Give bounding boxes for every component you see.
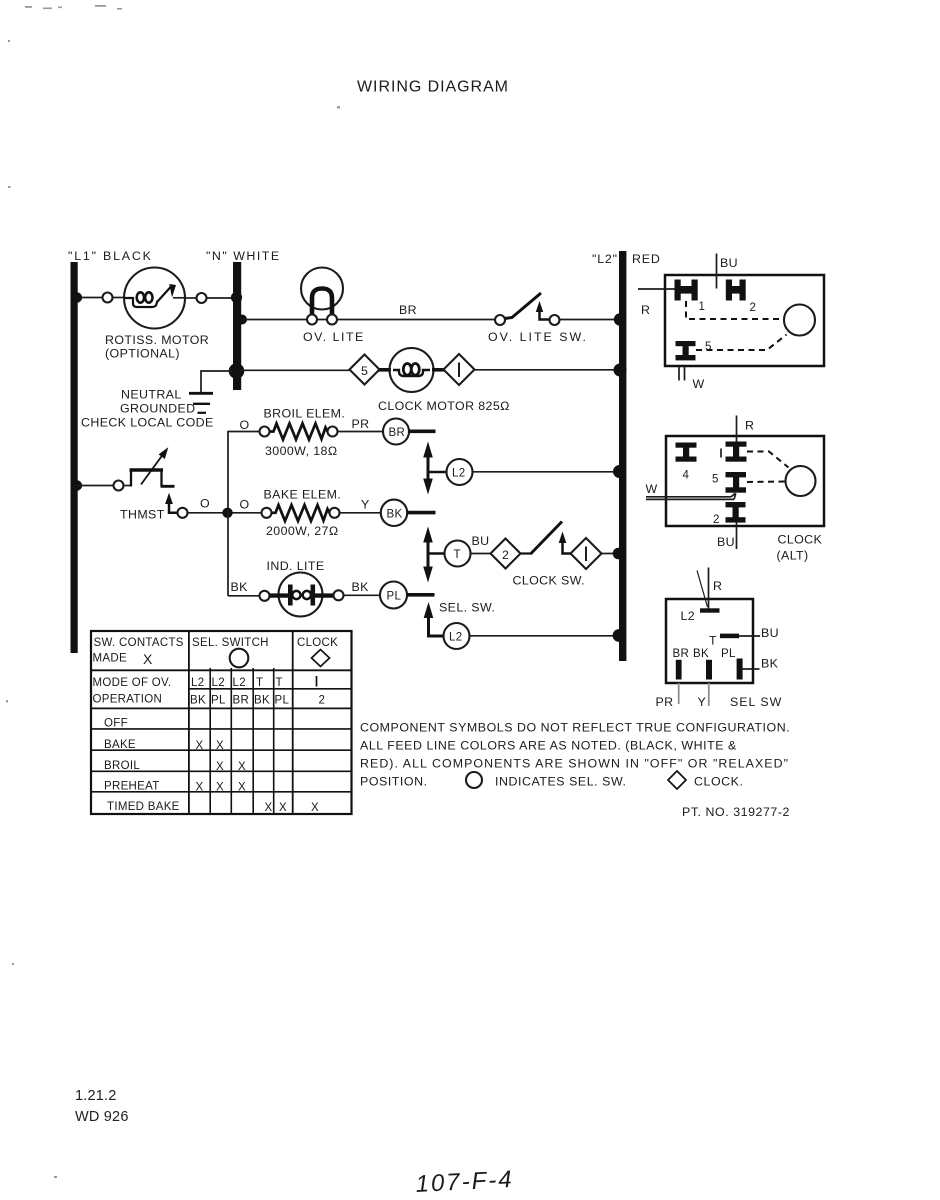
table header sel switch [192, 637, 269, 667]
wire N to diamond 5 [240, 369, 350, 371]
terminal 5 box1 [676, 341, 696, 360]
sel sw connector box 3 [666, 599, 753, 683]
svg-text:L2: L2 [452, 468, 465, 480]
svg-text:BK: BK [190, 695, 206, 707]
terminal 1 box2 [726, 442, 747, 462]
terminal broil right [328, 427, 338, 437]
svg-text:BK: BK [231, 580, 249, 594]
wire BU from T box3 [739, 635, 760, 637]
dashed link terminal1 to cam box2 [747, 452, 789, 468]
bus L1 bar [71, 262, 78, 653]
wire W into box2 [646, 493, 736, 499]
contact arrow BK/T (double) [423, 527, 444, 583]
node PL circle [380, 582, 407, 609]
node T circle [445, 541, 471, 567]
junction bake branch [222, 508, 232, 518]
terminal 5 box2 [726, 472, 747, 493]
rotiss motor circle [124, 268, 185, 329]
node BK circle [381, 500, 407, 526]
svg-text:4: 4 [683, 470, 690, 482]
bus L2 bar [619, 251, 626, 661]
svg-text:2: 2 [750, 302, 757, 314]
node BR circle [383, 419, 409, 445]
svg-text:THMST: THMST [120, 508, 165, 522]
bus N bar [233, 262, 241, 390]
svg-text:SW. CONTACTS: SW. CONTACTS [94, 637, 184, 649]
svg-text:L2: L2 [681, 609, 696, 623]
row BROIL [104, 760, 246, 773]
svg-text:CLOCK.: CLOCK. [694, 775, 743, 789]
svg-text:2: 2 [502, 548, 509, 562]
wire diamond1 to L2 [475, 369, 620, 371]
wire terminal to motor [113, 297, 126, 299]
wire diamond5 to clock motor [378, 368, 391, 372]
diamond 1 clock sw [571, 538, 602, 569]
svg-text:OFF: OFF [104, 718, 128, 730]
svg-text:INDICATES SEL. SW.: INDICATES SEL. SW. [495, 775, 627, 789]
stub wire BK [407, 511, 436, 515]
svg-text:PREHEAT: PREHEAT [104, 781, 160, 793]
svg-text:L2: L2 [233, 677, 246, 689]
svg-text:BAKE: BAKE [104, 739, 136, 751]
wire R into box3 [697, 568, 709, 610]
pin 1 label box2 [720, 449, 722, 458]
wire motor to terminal [185, 297, 197, 299]
svg-text:BROIL: BROIL [104, 760, 140, 772]
terminal ind lite right [334, 590, 344, 600]
svg-text:CLOCK MOTOR 825Ω: CLOCK MOTOR 825Ω [378, 399, 510, 413]
table frame [91, 631, 352, 814]
svg-text:X: X [196, 740, 204, 752]
svg-text:BR: BR [233, 695, 250, 707]
svg-text:CLOCK SW.: CLOCK SW. [513, 574, 585, 588]
svg-text:Y: Y [698, 695, 707, 709]
terminal ov-lite right [327, 315, 337, 325]
terminal 2 box1 [726, 280, 746, 301]
stub below Y [708, 683, 710, 706]
svg-text:BU: BU [761, 626, 779, 640]
svg-text:X: X [238, 782, 246, 794]
table row mode of operation [93, 677, 172, 706]
terminal ov-lite left [307, 315, 317, 325]
terminal thmst left [114, 481, 124, 491]
svg-text:COMPONENT SYMBOLS DO NOT REFLE: COMPONENT SYMBOLS DO NOT REFLECT TRUE CO… [360, 721, 790, 735]
svg-text:WIRING DIAGRAM: WIRING DIAGRAM [357, 79, 509, 96]
svg-text:BROIL ELEM.: BROIL ELEM. [264, 407, 346, 421]
wire T to diamond 2 [471, 553, 492, 555]
node L2 circle lower [444, 623, 470, 649]
terminal ind lite left [260, 591, 270, 601]
svg-text:W: W [693, 377, 705, 391]
svg-text:O: O [240, 418, 250, 432]
table header clock [297, 637, 338, 667]
svg-text:ROTISS. MOTOR: ROTISS. MOTOR [105, 333, 209, 347]
svg-text:O: O [200, 497, 210, 511]
svg-text:PT. NO. 319277-2: PT. NO. 319277-2 [682, 805, 790, 819]
clock motor circle [390, 348, 434, 392]
terminal 2 box2 [726, 502, 746, 523]
svg-text:PL: PL [387, 591, 402, 603]
clock switch blade [521, 522, 563, 555]
prong SEL box3 [737, 659, 743, 680]
svg-text:BK: BK [761, 657, 779, 671]
wire BU stub box2 [736, 523, 738, 550]
svg-text:L2: L2 [191, 677, 204, 689]
svg-text:BK: BK [387, 508, 403, 520]
svg-text:5: 5 [361, 364, 368, 378]
svg-text:X: X [279, 802, 287, 814]
junction N/ov-lite wire [237, 315, 247, 325]
wire L1 to rotiss motor [77, 297, 103, 299]
svg-text:ALL FEED LINE COLORS ARE AS NO: ALL FEED LINE COLORS ARE AS NOTED. (BLAC… [360, 739, 737, 753]
svg-text:MADE: MADE [93, 653, 127, 665]
svg-text:IND. LITE: IND. LITE [267, 559, 325, 573]
terminal 1 box1 [675, 280, 698, 301]
terminal bake left [262, 508, 272, 518]
svg-text:X: X [216, 740, 224, 752]
svg-text:1.21.2: 1.21.2 [75, 1088, 117, 1104]
svg-text:BK: BK [352, 580, 370, 594]
svg-text:L2: L2 [449, 632, 462, 644]
resistor broil element [270, 424, 328, 440]
svg-text:RED: RED [632, 252, 661, 266]
svg-text:BR: BR [399, 303, 417, 317]
svg-text:GROUNDED: GROUNDED [120, 402, 195, 416]
table header sw contacts made [93, 637, 184, 667]
svg-text:PL: PL [211, 695, 226, 707]
vertical branch wire broil-to-indlite [228, 432, 261, 597]
clock connector box 1 [665, 275, 824, 366]
svg-text:1: 1 [699, 301, 706, 313]
svg-text:BU: BU [472, 534, 490, 548]
svg-text:(OPTIONAL): (OPTIONAL) [105, 347, 180, 361]
svg-text:(ALT): (ALT) [777, 549, 809, 563]
diamond 2 [491, 539, 521, 569]
row BAKE [104, 739, 224, 752]
scan specks top-left [6, 5, 340, 1178]
svg-text:X: X [238, 761, 246, 773]
thermostat THMST [124, 447, 175, 486]
svg-text:R: R [641, 303, 650, 317]
svg-text:W: W [646, 482, 658, 496]
dashed link terminal5 to cam box2 [747, 481, 785, 484]
svg-text:X: X [196, 782, 204, 794]
svg-text:2: 2 [319, 695, 326, 707]
svg-text:BU: BU [717, 535, 735, 549]
subheader row 1 [191, 676, 317, 689]
wire BU into box1 [716, 254, 718, 289]
terminal 4 box2 [676, 443, 697, 462]
wire L1 to thmst [77, 485, 114, 487]
contact arrow BR/L2 (double) [423, 442, 446, 495]
svg-text:PR: PR [352, 417, 370, 431]
svg-text:2000W, 27Ω: 2000W, 27Ω [266, 524, 339, 538]
junction N/clock-motor (big) [229, 363, 245, 379]
svg-text:OV. LITE SW.: OV. LITE SW. [488, 330, 588, 344]
terminal T box3 [720, 634, 739, 639]
svg-text:OV. LITE: OV. LITE [303, 330, 365, 344]
wire to BR node [338, 431, 384, 433]
wire W stub box1 [679, 366, 685, 381]
ground symbol [189, 393, 213, 413]
svg-text:MODE OF OV.: MODE OF OV. [93, 677, 172, 689]
wire to PL node [344, 594, 381, 596]
thmst switch contact [165, 493, 187, 518]
svg-text:X: X [216, 782, 224, 794]
ov lite switch [495, 293, 560, 325]
wire L2 lower to bus [470, 635, 620, 637]
svg-text:Y: Y [361, 498, 370, 512]
svg-text:R: R [713, 579, 722, 593]
svg-text:OPERATION: OPERATION [93, 694, 163, 706]
junction L1/rotiss [72, 292, 82, 302]
junction L2/clock-sw [613, 548, 625, 560]
svg-text:"N" WHITE: "N" WHITE [206, 249, 281, 263]
dashed link terminal5 to cam box1 [696, 335, 787, 351]
cam circle box1 [784, 305, 815, 336]
svg-text:T: T [256, 677, 263, 689]
svg-text:X: X [265, 802, 273, 814]
svg-text:"L2": "L2" [592, 252, 618, 266]
wire branch to ind lite [228, 595, 260, 597]
svg-text:2: 2 [713, 514, 720, 526]
terminal bake right [330, 508, 340, 518]
junction L2/clock-motor [614, 364, 627, 377]
ov lite lamp [301, 268, 343, 318]
wire thmst to bake junction [188, 512, 263, 514]
terminal rotiss right [197, 293, 207, 303]
svg-text:5: 5 [712, 474, 719, 486]
wire R into box1 [638, 288, 676, 290]
svg-text:R: R [745, 419, 754, 433]
ind lite lamp [270, 573, 335, 617]
wire ov-lite row [241, 319, 496, 321]
svg-text:POSITION.: POSITION. [360, 775, 428, 789]
terminal broil left [260, 427, 270, 437]
wire L2 node to L2 bus [473, 471, 620, 473]
svg-text:SEL. SW.: SEL. SW. [439, 601, 495, 615]
clock switch contact [559, 532, 571, 554]
svg-text:"L1" BLACK: "L1" BLACK [68, 249, 153, 263]
svg-text:PL: PL [721, 648, 736, 660]
wire terminal to N bus [207, 297, 235, 299]
dashed link terminal1 to cam box1 [686, 301, 783, 319]
svg-text:WD 926: WD 926 [75, 1109, 129, 1125]
junction L1/thmst [72, 480, 82, 490]
node L2 circle upper [447, 459, 473, 485]
wire to BK node [340, 512, 382, 514]
svg-text:X: X [143, 651, 153, 667]
svg-text:BR: BR [389, 427, 406, 439]
wire BK from prong box3 [743, 668, 760, 670]
row TIMED BAKE [107, 801, 319, 814]
diamond 1 [444, 354, 475, 385]
svg-text:T: T [709, 634, 717, 648]
svg-text:X: X [216, 761, 224, 773]
svg-text:SEL SW: SEL SW [730, 695, 782, 709]
stub below PR [678, 683, 680, 704]
svg-text:BK: BK [254, 695, 270, 707]
svg-text:RED). ALL COMPONENTS ARE SHOW: RED). ALL COMPONENTS ARE SHOWN IN "OFF" … [360, 757, 789, 771]
contact arrow PL/L2 (single up) [424, 602, 443, 636]
svg-text:PR: PR [656, 695, 674, 709]
legend clock diamond [668, 771, 686, 789]
svg-text:NEUTRAL: NEUTRAL [121, 388, 182, 402]
prong PR box3 [676, 660, 682, 680]
resistor bake element [272, 505, 330, 521]
svg-text:TIMED BAKE: TIMED BAKE [107, 801, 180, 813]
row PREHEAT [104, 781, 246, 794]
legend sel sw circle [466, 772, 482, 788]
wire clock motor to diamond 1 [432, 368, 445, 372]
svg-text:3000W, 18Ω: 3000W, 18Ω [265, 444, 338, 458]
junction L2/ov-lite [614, 313, 626, 325]
notes text [360, 721, 790, 789]
svg-text:5: 5 [705, 341, 712, 353]
svg-text:O: O [240, 498, 250, 512]
svg-text:PL: PL [275, 695, 290, 707]
svg-text:SEL. SWITCH: SEL. SWITCH [192, 637, 269, 649]
clock connector box 2 (alt) [666, 436, 824, 526]
cam circle box2 [786, 466, 816, 496]
svg-text:T: T [276, 677, 283, 689]
svg-text:BK: BK [693, 648, 709, 660]
svg-text:BR: BR [673, 648, 690, 660]
svg-text:X: X [311, 802, 319, 814]
svg-text:BAKE ELEM.: BAKE ELEM. [264, 488, 342, 502]
stub wire BR [409, 429, 436, 433]
junction N/rotiss [231, 292, 242, 303]
terminal rotiss left [103, 293, 113, 303]
svg-text:CLOCK: CLOCK [297, 637, 338, 649]
junction L2 bus upper [613, 465, 626, 478]
subheader row 2 [190, 695, 325, 707]
wire R into box2 [736, 416, 738, 444]
svg-text:CLOCK: CLOCK [778, 533, 823, 547]
stub wire PL [407, 593, 435, 597]
ground wire [201, 371, 232, 392]
svg-text:T: T [454, 549, 461, 561]
terminal L2 box3 [700, 608, 720, 612]
diamond 5 [350, 355, 380, 385]
prong Y box3 [706, 660, 712, 680]
wire diamond to L2 bus [602, 553, 620, 555]
svg-text:CHECK LOCAL CODE: CHECK LOCAL CODE [81, 416, 214, 430]
svg-text:107-F-4: 107-F-4 [415, 1166, 514, 1198]
junction L2 bus lower [613, 629, 626, 642]
svg-text:L2: L2 [212, 677, 225, 689]
svg-text:BU: BU [720, 256, 738, 270]
